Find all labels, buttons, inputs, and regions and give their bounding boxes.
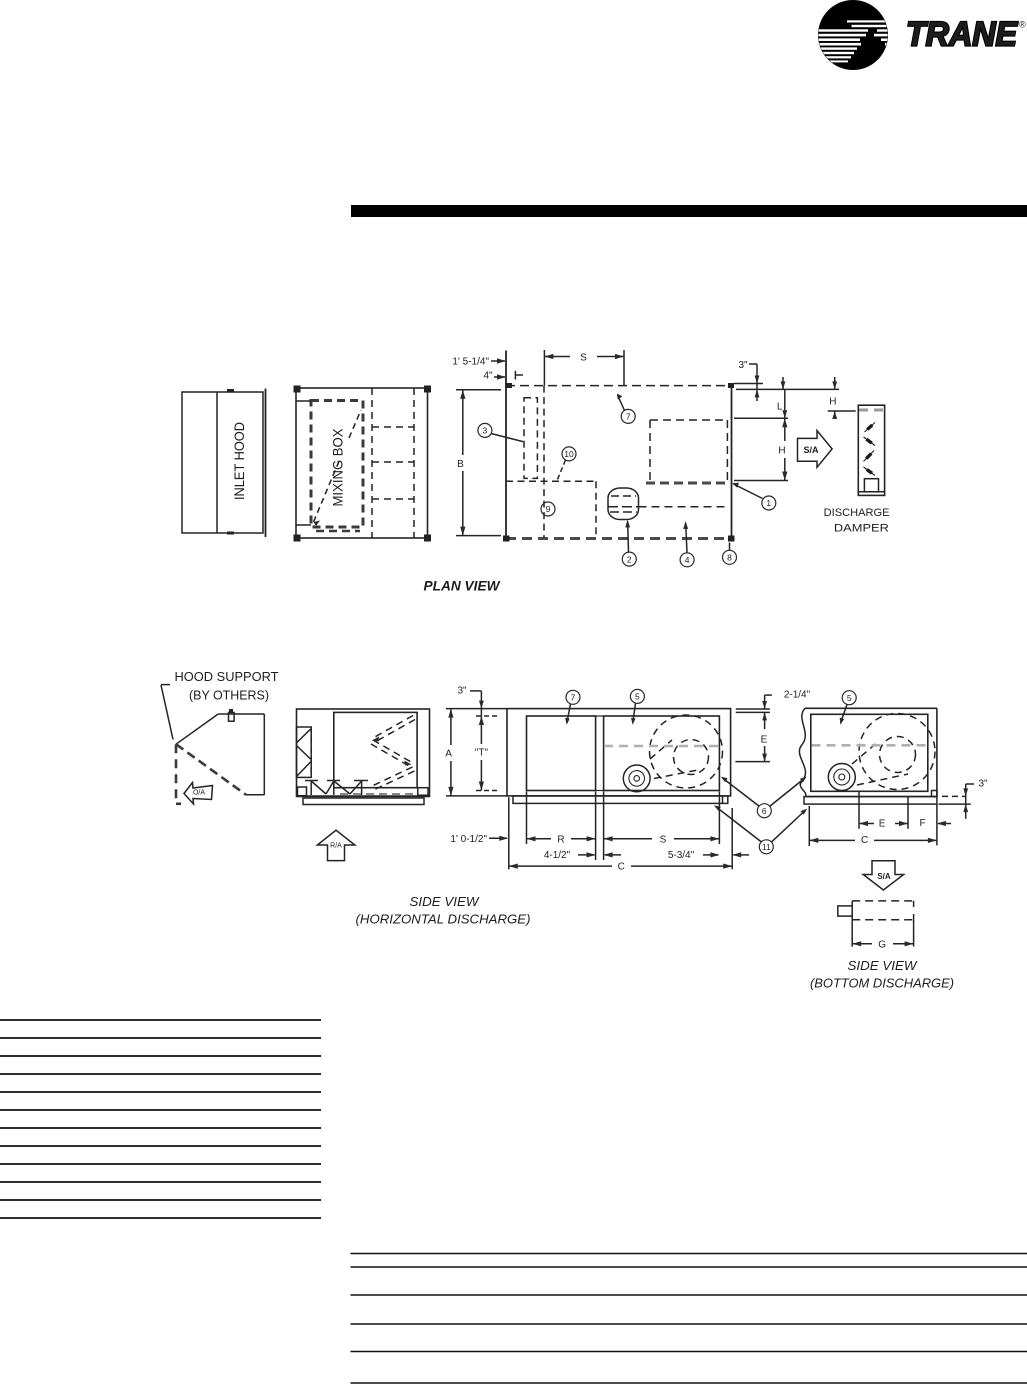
svg-text:S/A: S/A bbox=[803, 445, 819, 455]
svg-text:G: G bbox=[878, 939, 886, 950]
svg-text:3": 3" bbox=[738, 360, 748, 371]
svg-text:R: R bbox=[557, 834, 564, 845]
svg-text:S/A: S/A bbox=[877, 872, 891, 881]
svg-text:TRANE: TRANE bbox=[906, 16, 1018, 54]
svg-text:3": 3" bbox=[978, 779, 988, 790]
svg-text:4: 4 bbox=[685, 555, 690, 565]
svg-text:10: 10 bbox=[564, 449, 574, 459]
svg-text:INLET HOOD: INLET HOOD bbox=[231, 422, 247, 500]
svg-text:5: 5 bbox=[847, 693, 852, 703]
svg-text:SIDE VIEW: SIDE VIEW bbox=[848, 959, 918, 973]
svg-text:3": 3" bbox=[457, 686, 467, 697]
svg-text:HOOD SUPPORT: HOOD SUPPORT bbox=[175, 670, 279, 684]
svg-text:A: A bbox=[445, 749, 452, 760]
svg-text:1' 5-1/4": 1' 5-1/4" bbox=[452, 357, 489, 368]
svg-text:L: L bbox=[777, 402, 783, 413]
svg-text:F: F bbox=[919, 818, 925, 829]
svg-text:2: 2 bbox=[627, 554, 632, 564]
svg-text:E: E bbox=[879, 819, 886, 830]
svg-text:PLAN VIEW: PLAN VIEW bbox=[424, 578, 502, 594]
svg-text:9: 9 bbox=[546, 504, 551, 514]
svg-text:S: S bbox=[580, 353, 587, 364]
svg-text:H: H bbox=[778, 446, 785, 457]
svg-text:2-1/4": 2-1/4" bbox=[784, 690, 811, 701]
svg-text:8: 8 bbox=[727, 553, 732, 563]
svg-text:C: C bbox=[618, 862, 625, 873]
svg-text:®: ® bbox=[1019, 20, 1026, 30]
svg-text:(HORIZONTAL DISCHARGE): (HORIZONTAL DISCHARGE) bbox=[356, 913, 531, 927]
svg-text:3: 3 bbox=[483, 426, 488, 436]
svg-text:1' 0-1/2": 1' 0-1/2" bbox=[450, 834, 487, 845]
svg-text:DISCHARGE: DISCHARGE bbox=[824, 507, 890, 519]
svg-text:R/A: R/A bbox=[330, 843, 342, 850]
svg-text:C: C bbox=[861, 835, 868, 846]
svg-text:7: 7 bbox=[571, 693, 576, 703]
svg-text:E: E bbox=[761, 734, 768, 745]
svg-text:"T": "T" bbox=[475, 748, 489, 759]
svg-text:5-3/4": 5-3/4" bbox=[668, 850, 695, 861]
svg-text:S: S bbox=[660, 834, 667, 845]
svg-text:SIDE VIEW: SIDE VIEW bbox=[410, 895, 480, 909]
svg-text:O/A: O/A bbox=[193, 790, 205, 797]
svg-text:6: 6 bbox=[762, 806, 767, 816]
svg-text:4-1/2": 4-1/2" bbox=[544, 850, 571, 861]
svg-text:(BY OTHERS): (BY OTHERS) bbox=[189, 689, 269, 703]
svg-text:(BOTTOM DISCHARGE): (BOTTOM DISCHARGE) bbox=[810, 977, 954, 991]
svg-text:DAMPER: DAMPER bbox=[834, 523, 889, 535]
svg-text:MIXING BOX: MIXING BOX bbox=[330, 428, 346, 507]
svg-text:7: 7 bbox=[626, 412, 631, 422]
svg-text:11: 11 bbox=[762, 842, 771, 852]
svg-text:1: 1 bbox=[766, 498, 771, 508]
svg-text:H: H bbox=[829, 397, 836, 408]
svg-text:B: B bbox=[457, 459, 464, 470]
svg-text:5: 5 bbox=[635, 692, 640, 702]
svg-text:4": 4" bbox=[483, 371, 493, 382]
